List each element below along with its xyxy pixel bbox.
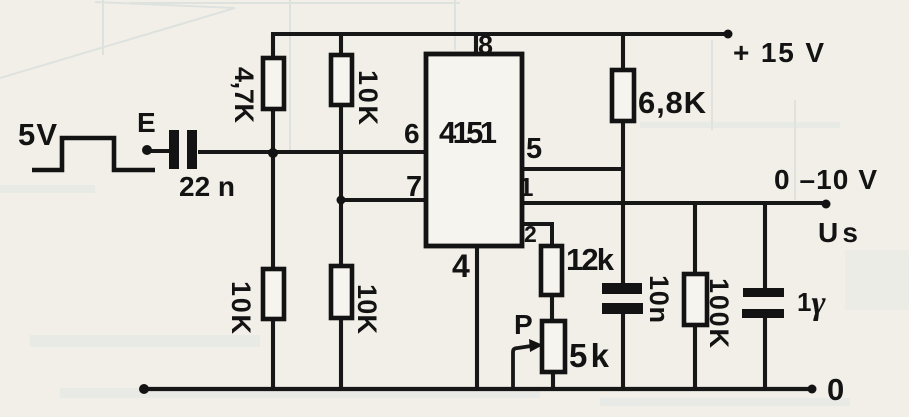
svg-text:Us: Us [818,217,858,248]
svg-text:1: 1 [519,172,533,202]
svg-text:6,8K: 6,8K [638,85,707,120]
svg-text:+ 15 V: + 15 V [733,37,824,68]
svg-text:E: E [137,107,156,138]
svg-text:0: 0 [827,372,844,407]
svg-text:2: 2 [524,221,537,247]
svg-text:10K: 10K [353,70,383,126]
svg-text:22 n: 22 n [179,171,235,202]
svg-text:10n: 10n [644,275,674,323]
svg-text:100K: 100K [704,278,734,349]
svg-text:P: P [514,309,533,340]
svg-text:4151: 4151 [439,115,497,150]
svg-text:8: 8 [478,30,493,60]
svg-text:4,7K: 4,7K [229,67,259,124]
svg-text:6: 6 [404,118,420,149]
svg-text:7: 7 [406,171,422,203]
svg-text:5V: 5V [18,117,57,152]
svg-text:1γ: 1γ [797,285,826,322]
svg-text:5: 5 [526,133,542,165]
svg-text:12k: 12k [566,242,615,277]
svg-text:0 –10 V: 0 –10 V [774,164,877,195]
svg-text:4: 4 [452,248,470,284]
svg-text:10K: 10K [226,281,256,335]
svg-text:10K: 10K [352,284,382,335]
